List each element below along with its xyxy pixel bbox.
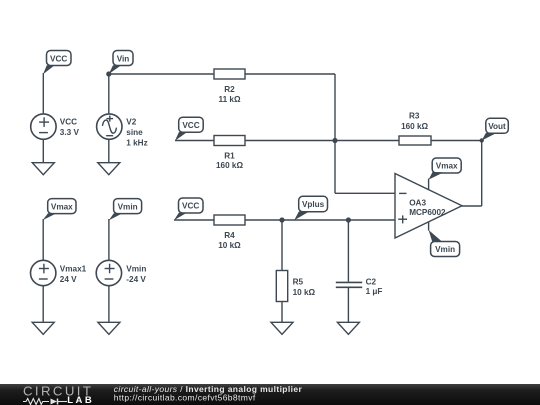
label R5 10 kOhm	[293, 278, 316, 298]
footer bar	[0, 384, 540, 405]
svg-text:1 μF: 1 μF	[366, 287, 383, 296]
svg-text:http://circuitlab.com/cefvt56b: http://circuitlab.com/cefvt56b8tmvf	[114, 393, 256, 403]
svg-text:160 kΩ: 160 kΩ	[216, 161, 243, 170]
wire C2 to ground	[347, 288, 349, 322]
wire op-amp bottom power stub	[428, 222, 430, 231]
svg-text:Vout: Vout	[488, 122, 506, 131]
wire Vin node down to V2	[108, 74, 110, 113]
wire to op-amp output	[462, 205, 482, 207]
capacitor C2	[336, 282, 362, 287]
node Vout corner	[480, 138, 484, 142]
svg-text:R2: R2	[224, 85, 235, 94]
label R1 160 kOhm	[216, 151, 243, 170]
net flag Vmin (op-amp V-)	[429, 230, 460, 257]
ground (Vmax1)	[32, 322, 54, 334]
wire C2 junction down	[347, 220, 349, 282]
wire R5 junction down	[281, 220, 283, 271]
net flag VCC (R4 row)	[174, 198, 203, 220]
node junction R1/R2/R3	[332, 138, 337, 143]
ground (V2)	[98, 163, 120, 175]
svg-text:OA3: OA3	[409, 198, 426, 207]
svg-text:VCC: VCC	[182, 202, 199, 211]
svg-text:Vmin: Vmin	[435, 245, 455, 254]
label Vmax1 24 V	[60, 264, 87, 284]
voltage source VCC 3.3V	[31, 114, 56, 139]
wire R5 to ground	[281, 302, 283, 323]
wire Vin node to R2	[109, 73, 214, 75]
net flag VCC (R1 row)	[175, 117, 203, 141]
wire VCC flag to R1	[175, 140, 214, 142]
voltage source V2 sine	[97, 114, 122, 139]
svg-text:10 kΩ: 10 kΩ	[218, 241, 241, 250]
wire junction down to op-amp inverting input	[334, 141, 336, 194]
label VCC 3.3 V	[60, 118, 80, 138]
label R2 11 kOhm	[218, 85, 240, 104]
net flag Vmax (source row)	[43, 199, 76, 221]
wire R2 to corner	[245, 73, 335, 75]
svg-text:V2: V2	[126, 118, 136, 127]
wire Vmin flag to source	[108, 219, 110, 260]
wire R4 to op-amp non-inverting input	[245, 219, 395, 221]
svg-text:R5: R5	[293, 278, 304, 287]
svg-text:R1: R1	[224, 151, 235, 160]
net flag Vplus	[294, 196, 327, 220]
svg-text:10 kΩ: 10 kΩ	[293, 288, 316, 297]
wire corner down to R1 net	[334, 74, 336, 141]
svg-text:sine: sine	[126, 128, 143, 137]
wire VCC flag to R4	[174, 219, 214, 221]
wire Vmax1 to ground	[42, 286, 44, 322]
svg-text:Vmin: Vmin	[126, 264, 146, 273]
wire VCC flag to source	[42, 73, 44, 113]
net flag Vmax (op-amp V+)	[429, 158, 462, 180]
svg-text:Vin: Vin	[117, 54, 130, 63]
ground (VCC source)	[32, 163, 54, 175]
wire R1 to junction	[245, 140, 335, 142]
svg-text:VCC: VCC	[50, 54, 67, 63]
node R5 junction	[279, 217, 284, 222]
wire junction to R3	[335, 140, 399, 142]
svg-text:R4: R4	[224, 231, 235, 240]
op-amp OA3 MCP6002	[395, 174, 462, 239]
CircuitLab logo diode	[51, 399, 58, 405]
wire Vmax flag to source	[42, 219, 44, 260]
net flag VCC (top-left)	[43, 51, 71, 75]
label R4 10 kOhm	[218, 231, 241, 250]
wire op-amp top power stub	[428, 179, 430, 190]
node Vin junction	[106, 71, 111, 76]
resistor R3	[399, 136, 431, 145]
svg-text:-24 V: -24 V	[126, 275, 146, 284]
svg-text:1 kHz: 1 kHz	[126, 139, 147, 148]
svg-text:160 kΩ: 160 kΩ	[401, 122, 428, 131]
svg-text:VCC: VCC	[60, 118, 77, 127]
ground (Vmin)	[98, 322, 120, 334]
svg-text:Vmax: Vmax	[51, 202, 73, 211]
label V2 sine 1 kHz	[126, 118, 147, 148]
resistor R4	[214, 215, 245, 225]
svg-text:Vplus: Vplus	[302, 200, 325, 209]
net flag Vmin (source row)	[109, 199, 142, 221]
svg-text:11 kΩ: 11 kΩ	[218, 95, 240, 104]
svg-text:Vmax: Vmax	[436, 162, 458, 171]
label R3 160 kOhm	[401, 111, 428, 131]
svg-text:LAB: LAB	[67, 395, 94, 405]
voltage source Vmax1 24V	[31, 260, 56, 285]
net flag Vin	[109, 51, 133, 75]
node C2 junction	[346, 217, 351, 222]
svg-text:R3: R3	[409, 111, 420, 120]
label Vmin -24 V	[126, 264, 146, 284]
resistor R2	[214, 69, 245, 79]
label C2 1 uF	[366, 277, 383, 296]
CircuitLab logo resistor zigzag	[23, 399, 67, 405]
svg-text:Vmin: Vmin	[118, 202, 138, 211]
svg-text:C2: C2	[366, 277, 377, 286]
resistor R5	[276, 271, 287, 302]
wire R3 to Vout corner	[431, 140, 482, 142]
svg-text:Vmax1: Vmax1	[60, 264, 87, 273]
wire Vout corner down	[481, 141, 483, 207]
resistor R1	[214, 136, 245, 146]
net flag Vout	[482, 118, 509, 140]
wire to inverting input	[335, 192, 395, 194]
wire VCC source to ground	[42, 139, 44, 162]
ground (R5)	[271, 322, 293, 334]
ground (C2)	[337, 322, 359, 334]
wire Vmin to ground	[108, 286, 110, 322]
svg-text:MCP6002: MCP6002	[409, 208, 446, 217]
wire V2 to ground	[108, 139, 110, 162]
svg-text:24 V: 24 V	[60, 275, 77, 284]
svg-text:VCC: VCC	[182, 121, 199, 130]
voltage source Vmin -24V	[96, 260, 121, 285]
svg-text:3.3 V: 3.3 V	[60, 128, 80, 137]
label OA3 MCP6002	[409, 198, 446, 217]
